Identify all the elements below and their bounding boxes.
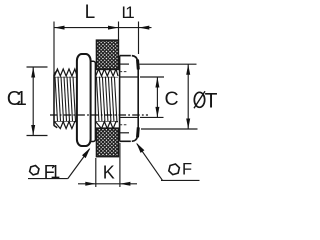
- svg-text:1: 1: [16, 88, 27, 110]
- svg-text:L: L: [85, 2, 96, 23]
- svg-text:C: C: [165, 88, 179, 110]
- svg-text:T: T: [205, 89, 218, 112]
- svg-text:F: F: [182, 161, 192, 179]
- svg-text:K: K: [103, 163, 115, 183]
- svg-text:1: 1: [50, 162, 60, 182]
- svg-text:1: 1: [125, 3, 134, 22]
